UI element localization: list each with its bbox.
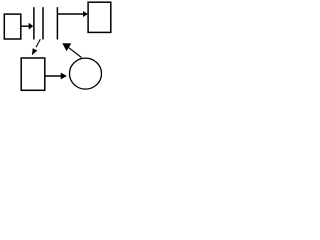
arrowhead into queue bar 1 <box>29 23 34 30</box>
queue bar 1 <box>33 7 35 39</box>
arrowhead pointing up-left toward queue <box>62 43 71 51</box>
box B (top-right rectangle) <box>88 2 111 32</box>
wire: queue to box C (diagonal arrow shaft, down-left) <box>36 39 40 47</box>
wire: box C to server circle (horizontal arrow shaft) <box>45 75 62 77</box>
server circle <box>70 58 102 89</box>
queue bar 3 <box>56 7 58 39</box>
arrowhead into server circle <box>61 73 67 80</box>
box C (bottom-left rectangle) <box>21 58 45 90</box>
wire: box A to queue bar 1 (horizontal arrow shaft) <box>21 25 30 27</box>
box A (top-left source rectangle) <box>4 14 21 39</box>
arrowhead into box C top <box>32 48 37 55</box>
arrowhead into box B <box>83 11 88 17</box>
wire: server circle to queue (diagonal arrow shaft, up-left) <box>69 48 82 58</box>
wire: queue bar 3 to box B (horizontal arrow shaft) <box>57 13 83 15</box>
queue bar 2 <box>42 7 44 39</box>
